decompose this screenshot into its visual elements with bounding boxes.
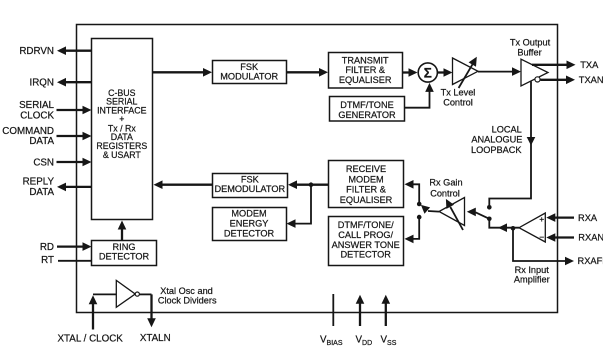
svg-text:DEMODULATOR: DEMODULATOR (214, 184, 285, 194)
summing junction (418, 63, 437, 82)
svg-text:RXAN: RXAN (578, 233, 603, 243)
pin RD arrow (in) (40, 242, 92, 253)
wire C-BUS to FSK modulator (152, 68, 212, 77)
svg-text:FSK: FSK (241, 174, 260, 184)
wire receive filter to FSK demodulator (288, 180, 328, 189)
Rx input amplifier op-amp U2 (514, 213, 550, 285)
node Rx path contact dot (487, 217, 492, 222)
wire op-amp output to switch (489, 219, 519, 232)
svg-text:LOCAL: LOCAL (492, 125, 522, 135)
svg-text:DTMF/TONE/: DTMF/TONE/ (338, 220, 394, 230)
svg-text:Tx Output: Tx Output (510, 38, 551, 48)
pin VSS arrow (up) (381, 295, 397, 347)
svg-text:Clock Dividers: Clock Dividers (158, 296, 217, 306)
pin XTAL/CLOCK arrow (in, up) (58, 295, 124, 344)
pin COMMAND DATA arrow (in) (2, 126, 91, 147)
pin CSN arrow (in) (33, 158, 91, 169)
receive modem filter and equaliser block (329, 161, 404, 208)
node loopback contact dot (487, 205, 492, 210)
svg-text:RDRVN: RDRVN (19, 46, 54, 57)
svg-text:TXA: TXA (580, 60, 599, 70)
local analogue loopback wire (489, 82, 535, 206)
wire summer to Tx level control (437, 68, 452, 77)
svg-text:Control: Control (443, 98, 473, 108)
svg-text:Tx Level: Tx Level (441, 87, 476, 97)
svg-text:COMMAND: COMMAND (2, 126, 54, 137)
pin RT line (41, 255, 92, 266)
svg-text:DETECTOR: DETECTOR (99, 251, 150, 261)
modem energy detector block (213, 208, 287, 241)
wire switch to DTMF detector (405, 217, 420, 243)
switch blade from Rx gain amp to upper contact (421, 205, 439, 214)
svg-text:MODULATOR: MODULATOR (220, 72, 278, 82)
svg-text:Rx Gain: Rx Gain (429, 178, 462, 188)
svg-text:Σ: Σ (424, 65, 432, 80)
svg-text:LOOPBACK: LOOPBACK (471, 145, 522, 155)
svg-text:GENERATOR: GENERATOR (338, 110, 396, 120)
chip outline (77, 25, 558, 313)
svg-text:RXAFB: RXAFB (578, 256, 603, 266)
node op-amp output dot (511, 226, 516, 231)
ring detector block (92, 241, 157, 266)
Tx level control amplifier (441, 57, 478, 108)
svg-text:MODEM: MODEM (348, 174, 383, 184)
pin RXAFB feedback wire and arrow (out) (513, 228, 603, 266)
svg-text:RECEIVE: RECEIVE (346, 164, 386, 174)
local analogue loopback label (471, 125, 522, 155)
wire DTMF generator to summer (405, 83, 434, 108)
svg-text:MODEM: MODEM (231, 209, 266, 219)
DTMF tone call prog answer tone detector block (329, 217, 404, 266)
xtal osc label (158, 286, 217, 305)
svg-text:REPLY: REPLY (23, 177, 55, 188)
C-BUS serial interface block U1 (92, 39, 153, 220)
svg-text:CLOCK: CLOCK (20, 110, 54, 121)
svg-text:Control: Control (430, 189, 460, 199)
svg-text:XTAL / CLOCK: XTAL / CLOCK (58, 334, 124, 345)
svg-text:IRQN: IRQN (30, 77, 55, 88)
svg-text:EQUALISER: EQUALISER (340, 195, 393, 205)
svg-text:ANSWER TONE: ANSWER TONE (332, 240, 400, 250)
svg-text:& USART: & USART (103, 150, 142, 160)
svg-text:RT: RT (41, 255, 54, 266)
pin RXA arrow (in) (546, 213, 598, 223)
svg-text:RXA: RXA (578, 213, 598, 223)
wire FSK demodulator to C-BUS (154, 180, 213, 189)
pin TXA arrow (532, 60, 599, 70)
svg-text:Amplifier: Amplifier (514, 275, 550, 285)
wire FSK modulator to transmit filter (287, 68, 329, 77)
wire Tx level control to Tx output buffer (478, 67, 521, 76)
pin RXAN arrow (in) (546, 233, 603, 243)
wire junction to modem energy detector (287, 185, 312, 228)
svg-text:TRANSMIT: TRANSMIT (342, 55, 389, 65)
svg-text:FILTER &: FILTER & (345, 65, 385, 75)
pin REPLY DATA arrow (out) (23, 177, 92, 198)
wire switch to receive filter (405, 180, 420, 204)
node switch lower dot (417, 215, 422, 220)
svg-text:DATA: DATA (29, 187, 54, 198)
svg-text:−: − (539, 232, 544, 242)
svg-text:Buffer: Buffer (517, 47, 541, 57)
DTMF tone generator block (330, 97, 405, 122)
svg-text:CALL PROG/: CALL PROG/ (338, 230, 393, 240)
svg-text:EQUALISER: EQUALISER (339, 75, 392, 85)
pin TXAN arrow (541, 75, 603, 85)
switch blade into Rx gain amp (467, 208, 490, 219)
svg-text:DETECTOR: DETECTOR (224, 228, 275, 238)
svg-text:SERIAL: SERIAL (19, 100, 54, 111)
svg-text:FILTER &: FILTER & (346, 185, 386, 195)
xtal oscillator inverter (93, 280, 152, 307)
wire transmit filter to summer (403, 68, 418, 77)
pin IRQN arrow (out) (30, 77, 92, 88)
pin XTALN arrow (out, down) (140, 294, 171, 344)
svg-text:ENERGY: ENERGY (230, 218, 269, 228)
svg-text:ANALOGUE: ANALOGUE (471, 134, 522, 144)
Tx output buffer amplifier (510, 38, 551, 86)
svg-text:+: + (539, 214, 544, 224)
pin VBIAS line (320, 294, 343, 347)
pin RDRVN arrow (out) (19, 46, 91, 57)
FSK demodulator block (213, 174, 288, 198)
svg-text:DETECTOR: DETECTOR (341, 250, 392, 260)
node switch upper dot (417, 202, 422, 207)
pin VDD arrow (up) (356, 295, 373, 347)
wire ring detector to C-BUS (118, 221, 127, 241)
svg-text:DATA: DATA (29, 136, 54, 147)
svg-text:RD: RD (40, 242, 54, 253)
svg-text:DTMF/TONE: DTMF/TONE (340, 100, 393, 110)
pin SERIAL CLOCK arrow (in) (19, 100, 91, 121)
svg-text:CSN: CSN (33, 158, 54, 169)
Rx gain control amplifier (429, 178, 464, 230)
FSK modulator block (213, 61, 287, 84)
svg-text:TXAN: TXAN (579, 75, 603, 85)
node junction dot on receive line (309, 182, 314, 187)
svg-text:XTALN: XTALN (140, 333, 171, 344)
svg-text:Rx Input: Rx Input (515, 265, 550, 275)
transmit filter and equaliser block (329, 53, 403, 89)
